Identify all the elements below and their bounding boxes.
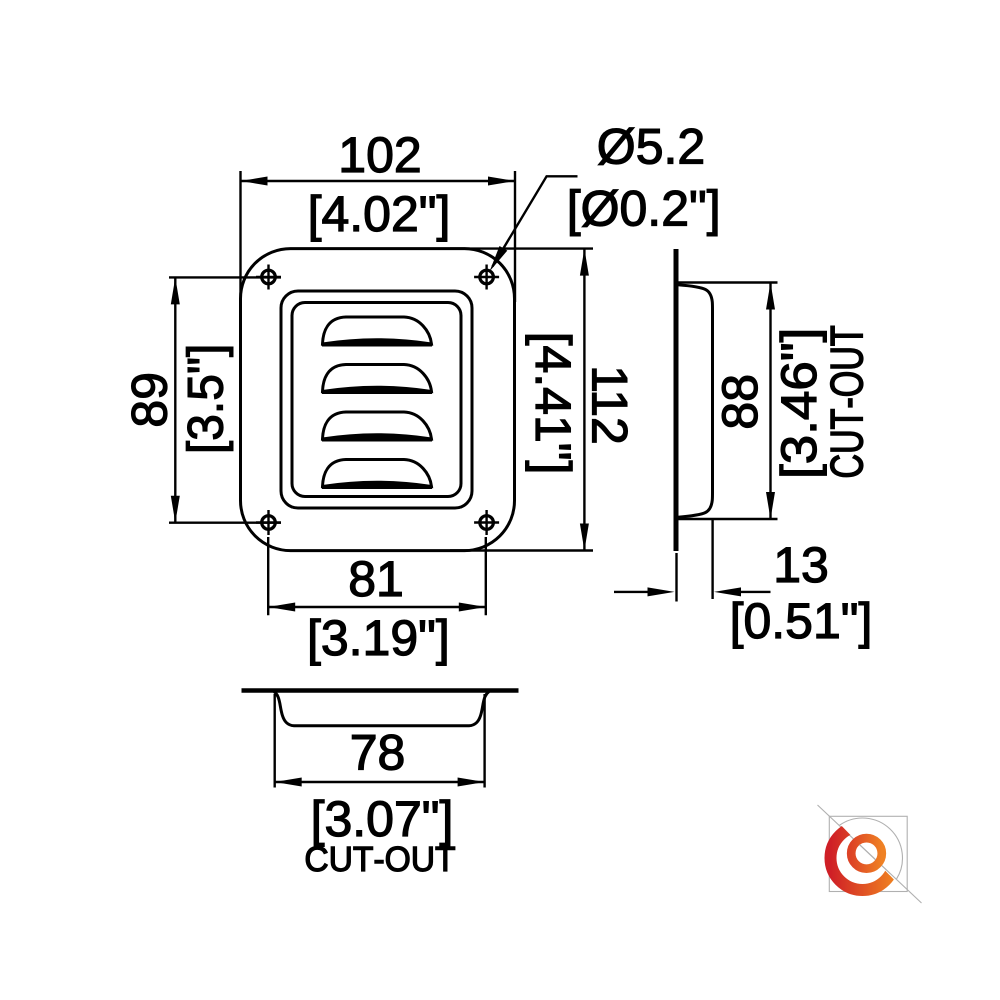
dim 88: dimension line [769, 283, 771, 520]
svg-text:[3.46"]: [3.46"] [771, 328, 827, 479]
dim 102: dimension line [241, 180, 516, 182]
dim 13: extension lines [677, 520, 713, 602]
louver 3 [322, 412, 432, 441]
svg-text:[Ø0.2"]: [Ø0.2"] [567, 181, 721, 237]
dim 112: dimension line [583, 249, 585, 551]
svg-text:78: 78 [350, 725, 406, 781]
logo: outer arc [831, 826, 895, 890]
logo: diagonal over ring hole [860, 845, 876, 860]
logo: gray circle guide [840, 818, 903, 879]
dim 112: extension lines [450, 249, 593, 551]
louver 2 [322, 365, 432, 394]
hole bottom-left [256, 510, 281, 535]
logo: gray square guide [829, 816, 907, 891]
bottom view: dish profile [274, 692, 489, 726]
svg-text:81: 81 [348, 551, 404, 607]
svg-text:102: 102 [338, 127, 421, 183]
svg-text:[0.51"]: [0.51"] [730, 593, 873, 649]
dim 89: extension lines [169, 277, 281, 522]
dim 88: extension lines [678, 283, 778, 520]
text CUT-OUT [306, 847, 455, 872]
svg-text:89: 89 [122, 372, 178, 428]
logo: inner ring [851, 838, 882, 869]
dim 89: dimension line [174, 277, 176, 522]
dim 13: dimension line left [614, 591, 648, 593]
svg-text:[3.19"]: [3.19"] [307, 610, 450, 666]
dim 102: extension lines [241, 171, 516, 302]
svg-text:[4.02"]: [4.02"] [308, 186, 451, 242]
dim 81: extension lines [268, 537, 486, 615]
dim 78: extension lines [275, 694, 485, 788]
svg-text:112: 112 [582, 365, 638, 445]
hole top-right [474, 265, 499, 290]
front view: dish inner edge [292, 303, 461, 497]
front view: dish outer edge [281, 291, 472, 508]
text CUT-OUT (rotated) [830, 326, 863, 477]
svg-text:[4.41"]: [4.41"] [525, 332, 581, 475]
svg-text:13: 13 [773, 537, 829, 593]
louver 4 [322, 460, 432, 489]
svg-text:88: 88 [712, 374, 768, 430]
hole top-left [256, 265, 281, 290]
front view: plate outline [241, 249, 515, 551]
logo: gray diagonal guide [818, 805, 922, 903]
bottom view: plate edge [242, 688, 519, 693]
dim 13: dimension line right [741, 591, 771, 593]
side view: flange edge [674, 249, 679, 551]
leader for hole diameter [493, 176, 578, 266]
louver 1 [322, 317, 432, 346]
svg-text:[3.07"]: [3.07"] [311, 791, 454, 847]
svg-text:Ø5.2: Ø5.2 [597, 119, 705, 175]
svg-text:[3.5"]: [3.5"] [178, 344, 234, 454]
hole bottom-right [474, 510, 499, 535]
dim 78: dimension line [275, 781, 485, 783]
dim 81: dimension line [268, 606, 486, 608]
side view: dish profile [678, 285, 713, 517]
